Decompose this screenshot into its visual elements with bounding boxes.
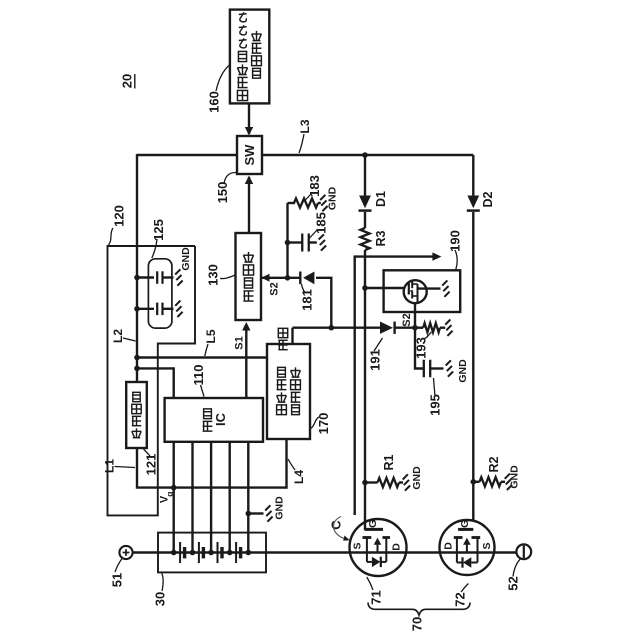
node dot output/181 junction [329,325,335,331]
arrow from control circuit 130 into SW [248,177,250,233]
svg-text:121: 121 [144,454,159,476]
svg-text:70: 70 [410,617,425,631]
svg-text:191: 191 [368,349,383,371]
wire battery tap5 to GND [248,512,263,514]
svg-text:R1: R1 [382,454,396,470]
wire cap 195 branch from S2 node [415,328,424,369]
resistor 193 [423,323,440,332]
svg-text:110: 110 [191,365,206,386]
control circuit 130 box [236,233,262,320]
wire from diode 181 to output line [316,278,331,328]
mosfet Q72 body diode [457,562,462,564]
mosfet Q72 gate [458,528,473,531]
wire output riser from box 170 top [291,328,293,344]
svg-text:183: 183 [307,175,322,197]
wire battery tap 3 [210,442,212,553]
svg-text:D: D [391,543,403,551]
node dot Vg [171,485,177,491]
node dot S2 main [412,325,418,331]
node dot gate of 190 [362,285,368,291]
wire control S2 from control circuit to diode 181 [261,277,300,279]
svg-text:181: 181 [300,289,315,311]
terminal 52 minus [516,544,531,559]
mosfet U190 gate wire [365,287,405,289]
svg-text:GND: GND [274,496,286,520]
wire D2 branch vertical x=473.3 [472,155,474,196]
svg-text:G: G [367,520,379,528]
node dot C185 tap [285,240,291,246]
diode 191 [380,322,393,334]
svg-text:193: 193 [414,337,429,359]
block 190 box [384,270,461,312]
capacitor 125b [137,308,154,310]
svg-text:IC: IC [213,412,228,426]
protection IC 110 box [165,398,263,442]
svg-text:L4: L4 [292,470,306,484]
arrowhead S2 into control circuit [262,274,270,282]
svg-text:190: 190 [448,230,463,252]
svg-text:G: G [459,520,471,528]
label output [278,339,287,341]
capacitor 195 [423,360,425,378]
wire battery tap 1 (Vg) [172,442,174,553]
svg-text:71: 71 [369,590,384,604]
svg-text:S2: S2 [401,313,413,326]
svg-text:S2: S2 [269,282,281,295]
mosfet Q71 gate [365,528,383,531]
svg-text:72: 72 [453,592,468,606]
recovery block 160 text [237,90,247,100]
diode D2 [467,196,479,209]
brace 70 grouping Q71 Q72 [368,603,470,616]
wire R183 branch [288,202,296,204]
wire A L5 from L2 to box 170 [137,356,267,358]
svg-text:125: 125 [151,219,166,241]
block 120 outline [108,246,196,515]
arrow from recovery block 160 into SW [248,103,250,134]
wire S1 from protection IC to control circuit with up arrow [245,325,247,398]
wire B from L2 to protection IC top pin [137,368,174,398]
component 125 rounded box [148,259,172,328]
svg-text:D2: D2 [481,191,495,207]
mosfet U190 source/drain rail [417,284,419,303]
wire stub with arrow to block 190 [355,257,436,515]
node dot tap5 GND [246,511,252,517]
svg-text:GND: GND [180,247,192,271]
svg-text:130: 130 [206,264,221,286]
voltage detection block 170 box [267,344,310,439]
svg-text:150: 150 [215,182,230,204]
svg-text:g: g [165,492,175,497]
diode 181 [299,272,301,285]
wire S2 node horizontal (output line) y=327.7 [293,327,381,329]
terminal 51 plus [119,546,132,559]
resistor 183 [294,198,318,207]
wire D1/R3 gate line vertical x=365 [364,155,366,196]
wire L2 vertical main left line x=137 [136,154,138,382]
wire isolation circuit output L1 down to Vg [137,439,287,488]
svg-text:D: D [443,542,455,550]
battery cells [179,542,181,563]
node dot R1 tap [362,480,368,486]
svg-text:L1: L1 [103,459,117,473]
ground battery [265,505,270,510]
diode D1 [359,196,371,209]
capacitor 125a [137,276,154,278]
svg-text:S: S [481,542,493,549]
wire mosfet 190 drain to S2 node [414,303,416,328]
mosfet Q72 circle [440,520,495,575]
svg-text:195: 195 [428,394,443,416]
svg-text:SW: SW [242,144,257,166]
resistor R1 [365,481,378,483]
svg-text:GND: GND [457,359,469,383]
battery pack 30 box [158,533,266,573]
mosfet U190 channel [411,282,413,289]
node dot S2 branch [285,275,291,281]
recovery block 160 box [230,10,269,104]
node dots battery cells [171,550,177,556]
wire main bottom rail from terminal 51 to terminal 52 [132,551,516,553]
svg-text:170: 170 [316,413,331,435]
wire branch vertical x=287.5 for R183/C185 [286,203,288,278]
wire battery tap 4 [228,442,230,553]
wire battery tap 5 [247,442,249,553]
mosfet U190 circle [404,280,427,303]
node dot R2 tap [471,479,477,485]
switch SW box [237,136,262,174]
svg-text:30: 30 [153,592,168,606]
svg-text:R3: R3 [374,230,388,246]
resistor R3 [360,228,369,250]
svg-text:L5: L5 [204,329,218,343]
svg-text:GND: GND [411,466,423,490]
svg-text:D1: D1 [374,191,388,207]
svg-text:L3: L3 [298,119,312,133]
svg-text:S1: S1 [234,336,246,349]
mosfet U190 to internal ground [418,287,441,289]
svg-text:52: 52 [506,576,521,590]
svg-text:20: 20 [120,74,135,88]
wire battery tap 2 [191,442,193,553]
wire L3 top horizontal from node L2 corner to D2 corner [137,154,236,156]
svg-text:160: 160 [207,91,222,113]
svg-text:C: C [329,520,344,530]
mosfet Q72 channel [454,536,463,539]
svg-text:GND: GND [327,186,339,210]
svg-text:120: 120 [112,205,127,227]
svg-text:S: S [352,542,364,549]
mosfet Q72 arrow [466,543,468,553]
svg-text:GND: GND [509,465,521,489]
node dots on L2 line [134,275,140,281]
mosfet Q71 channel [363,536,372,539]
node dot D1 top [362,152,368,158]
mosfet Q71 circle [350,519,407,576]
resistor R2 [473,481,479,483]
capacitor 185 [301,234,303,252]
mosfet Q71 arrow [377,543,379,553]
svg-text:R2: R2 [487,456,501,472]
svg-text:51: 51 [110,573,125,587]
mosfet Q71 body diode [367,561,372,563]
isolation circuit 121 box [126,382,147,448]
svg-text:L2: L2 [111,329,125,343]
wire C185 branch [288,241,303,243]
